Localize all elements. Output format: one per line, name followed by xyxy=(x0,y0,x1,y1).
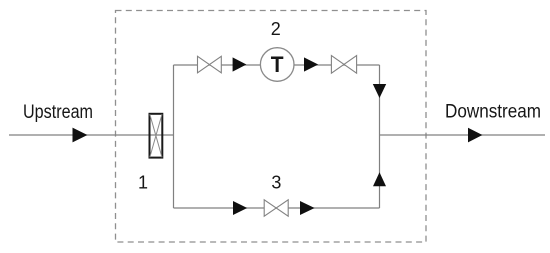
svg-text:3: 3 xyxy=(271,173,281,193)
svg-text:Downstream: Downstream xyxy=(445,102,541,123)
svg-text:1: 1 xyxy=(138,173,148,193)
flow arrow: top branch before thermometer xyxy=(233,57,247,71)
system boundary (dashed enclosure) xyxy=(116,11,427,243)
valve V3 (bottom branch, item 3) xyxy=(264,200,288,216)
flow arrow: bottom branch outlet xyxy=(300,201,315,215)
wire: left branch riser xyxy=(173,65,175,208)
wire: downstream main pipe xyxy=(380,134,546,136)
wire: top branch pipe xyxy=(174,64,380,66)
valve V2 (top branch outlet) xyxy=(331,56,356,74)
wire: upstream main pipe xyxy=(9,134,174,136)
flow arrow: right riser downward xyxy=(373,84,386,98)
wire: bottom branch pipe xyxy=(174,207,380,209)
svg-text:T: T xyxy=(271,52,284,77)
flow arrow: right riser upward xyxy=(373,172,386,186)
component 1: cross diagonal b xyxy=(150,114,162,157)
wire: right branch riser xyxy=(379,65,381,208)
flow arrow: bottom branch inlet xyxy=(233,201,247,215)
svg-text:2: 2 xyxy=(271,19,281,39)
component 1: cross diagonal a xyxy=(150,114,162,157)
flow arrow: upstream xyxy=(73,128,88,143)
valve V1 (top branch inlet) xyxy=(198,56,222,73)
thermometer U2 circle xyxy=(260,48,294,82)
component 1: flow conditioner body xyxy=(150,114,163,158)
svg-text:Upstream: Upstream xyxy=(23,102,93,123)
flow arrow: downstream xyxy=(468,128,482,143)
flow arrow: top branch after thermometer xyxy=(304,57,318,71)
